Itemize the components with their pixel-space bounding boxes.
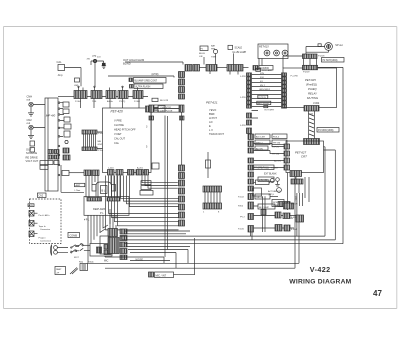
label boxes A14/N20/GN3 [140,181,153,195]
wire elbows mid [121,176,179,207]
jack symbol 1 [29,211,38,217]
label box LM9 [75,78,80,82]
svg-text:MIC / INT: MIC / INT [156,274,167,277]
connector stubs into PET-420 [81,99,140,109]
svg-text:VOLT OUT: VOLT OUT [26,159,39,163]
svg-text:MV 2: MV 2 [260,85,266,87]
svg-text:GB/LIN: GB/LIN [256,197,264,199]
svg-text:MPX 2: MPX 2 [256,143,263,145]
connector strip tail [120,255,127,260]
lower ladder blocks [248,194,254,233]
parts column right of MP-410 [63,102,71,160]
transformer KEP-620 enclosure [84,197,129,216]
svg-text:V-422: V-422 [310,265,331,274]
sub-circuit row B [254,202,291,210]
svg-text:BLI/AMP GRID CONT: BLI/AMP GRID CONT [135,80,158,83]
transistor Q1 [91,59,104,86]
cable to CRT [309,111,315,139]
svg-text:AUX: AUX [29,204,34,207]
svg-text:# P L: # P L [84,220,90,222]
svg-text:(Pre/EQ): (Pre/EQ) [306,83,317,87]
cable GN [300,193,303,206]
trimmer RT1 [206,152,211,178]
connector SUZ [261,210,266,216]
svg-text:A F: A F [209,120,213,124]
switch S1 [71,245,78,249]
svg-text:P1218: P1218 [318,56,325,58]
svg-text:L Noir: L Noir [75,189,81,192]
svg-text:FD/L4: FD/L4 [273,137,280,139]
label box SPKR MUT [272,200,284,207]
pin strip left [87,198,102,202]
label box GB/LIN upper [256,180,270,185]
svg-text:LIR: LIR [199,56,203,58]
connector blocks on PET-627 left edge [284,144,290,170]
pin strip right [107,198,120,202]
svg-text:BWF: BWF [209,112,215,116]
comb connector P14 [82,130,97,151]
connector A20 [106,91,116,99]
svg-text:GND/GND2: GND/GND2 [259,89,271,91]
jack CN2 [29,125,45,129]
svg-text:CN2: CN2 [39,196,44,198]
svg-text:PV 2: PV 2 [240,217,246,219]
PCB PET-420 outline [103,108,152,173]
wires from transformer pins down [88,215,116,246]
svg-text:BF COMP: BF COMP [259,207,270,209]
svg-text:SOURCE: SOURCE [26,151,37,155]
connector P206 [133,91,143,99]
connector on PET-625 top [303,65,318,70]
AC plug P1 [51,245,69,256]
svg-text:Pin & JACs: Pin & JACs [39,214,51,217]
label box P8 BL [152,98,158,101]
svg-text:MP 4/0: MP 4/0 [46,113,56,117]
svg-text:7/16: 7/16 [92,101,97,103]
ground [102,66,107,69]
svg-text:A-201: A-201 [137,167,144,170]
svg-text:V PRE: V PRE [114,119,122,123]
svg-text:1: 1 [203,212,205,214]
svg-text:MIC: MIC [104,260,109,263]
svg-text:P202: P202 [238,206,244,208]
wires down from PET-627 [288,173,310,211]
pins of MP-410 [58,102,60,176]
svg-text:P15a: P15a [98,150,104,152]
label box P7 DPB [253,165,274,170]
svg-text:P-304: P-304 [134,101,141,103]
stubs below P1204 [210,71,252,240]
lamp BAT [213,49,217,64]
svg-text:SOL LAMP: SOL LAMP [262,69,273,72]
wire links between connectors [87,95,148,97]
label box COMB [68,233,80,238]
label box AMT TRIG [257,101,271,104]
connector P1204a [206,65,217,72]
ladder left strip [247,73,252,134]
wire comb to PET-420 [97,132,103,149]
speaker SP [306,43,332,54]
label box B1 [264,106,268,108]
svg-text:OUT CHR STBY: OUT CHR STBY [155,107,172,109]
connector MOD4 on PET-627 bottom [290,171,302,177]
svg-text:Jmp: Jmp [58,73,63,77]
svg-text:5: 5 [146,146,148,149]
fuse F1 [80,264,88,271]
svg-text:KEP-620: KEP-620 [93,207,105,211]
svg-text:YEVO: YEVO [209,108,216,112]
svg-text:MESH: MESH [291,204,298,206]
svg-text:PET-615: PET-615 [259,46,269,49]
wires ladder to PET-627 [254,144,285,168]
svg-text:PET-621: PET-621 [206,101,218,105]
connector grid block [108,229,127,254]
pin stubs MP-410 [60,103,64,137]
svg-text:V DET: V DET [114,132,122,136]
label boxes row y134 [255,134,287,139]
IC MP-410 [45,98,58,191]
svg-text:Connector: Connector [40,228,50,231]
capacitor C1 [102,63,105,65]
label box L/R(A/B) [258,177,274,182]
PCB PET-627 [286,141,324,173]
svg-text:P-304: P-304 [75,101,82,103]
svg-text:J-P20: J-P20 [240,97,246,99]
wire fan upper [124,231,190,234]
svg-text:OUT DEF PULSE: OUT DEF PULSE [155,111,173,113]
label box P4 MOD(1399) [317,128,339,133]
svg-text:out: out [27,98,31,102]
svg-text:ULTRA FLASH: ULTRA FLASH [135,86,151,89]
svg-text:P-DIST: P-DIST [271,168,279,170]
svg-text:P2(4): P2(4) [88,262,94,264]
top-centre bus wires [108,62,183,78]
lamp box PET-615 [258,44,288,66]
svg-text:Project: Project [39,237,46,240]
svg-text:AMP: AMP [76,184,81,187]
svg-text:P-105: P-105 [238,229,245,231]
svg-text:CAL OUT: CAL OUT [114,137,126,141]
label boxes row y140 [255,140,287,145]
svg-text:P4 MOD(1399): P4 MOD(1399) [318,130,334,132]
svg-text:3: 3 [146,126,148,129]
svg-text:2x3: 2x3 [97,57,101,59]
label box P6 [62,171,69,176]
svg-text:BULB: BULB [199,53,205,55]
svg-text:CRT: CRT [301,155,307,159]
diode/part [70,268,78,275]
svg-text:SPKR: SPKR [273,202,279,204]
svg-text:P-102: P-102 [238,197,245,199]
svg-text:EXT BLANK: EXT BLANK [264,173,277,176]
label box FLTR N [258,95,268,98]
wire GN riser [296,193,298,236]
svg-text:NOISE: NOISE [136,259,144,262]
svg-text:47: 47 [373,289,382,298]
connector P1399 [304,139,320,145]
connector G6 [296,215,304,222]
svg-text:P2 SCH(1394): P2 SCH(1394) [323,60,338,62]
jack symbol 3 [29,231,38,237]
jack CN1 [29,102,45,106]
small parts grid [48,150,59,165]
component CAL [58,65,81,71]
wires from PET-627 right [324,147,336,150]
label box CN2 [38,193,47,198]
svg-text:PET-420: PET-420 [111,110,124,114]
connector row P-204 [84,170,99,176]
connector P240 on PET-625 bottom [304,106,319,112]
wire bundle mid ladder [263,196,266,232]
svg-text:V-002: V-002 [313,102,320,105]
connector block [284,203,294,209]
wire parts column to transformer [61,165,84,192]
mid ladder strip [248,134,254,191]
label box CA BLI/MOD [253,66,273,71]
svg-text:PH GM: PH GM [273,143,280,145]
svg-text:(GN): (GN) [294,196,296,201]
wire to P1 connector [200,67,207,69]
svg-text:HEAD PITCH OFF: HEAD PITCH OFF [114,128,136,132]
label box P30 [40,161,48,170]
svg-text:ALIGN: ALIGN [256,147,263,150]
connector grid P142 [203,186,222,209]
svg-text:Ch ON: Ch ON [70,251,77,253]
ladder rung wires [252,75,282,119]
PCB PET-625 [283,68,337,108]
svg-text:BLIND: BLIND [123,62,131,66]
connector P204 [118,91,128,99]
ground [28,107,34,116]
parts below PET-627 [275,178,281,193]
resistor R1 [30,141,35,146]
label box AMP [75,183,85,186]
svg-text:SP out: SP out [335,44,343,47]
label box ULTRA FLASH [130,84,164,89]
long routing wires bottom [88,236,344,268]
wire [80,68,82,87]
svg-text:MB: MB [98,141,102,143]
svg-text:ILLUM LAMP: ILLUM LAMP [233,51,247,54]
label box BLI/AMP GRID CONT [129,78,166,84]
connector pair cluster [185,65,200,72]
svg-text:RE DRIVE: RE DRIVE [26,156,39,160]
svg-text:F2N: F2N [260,73,264,75]
svg-text:AMT TRIGR: AMT TRIGR [258,102,270,105]
wire drops into transformer [86,176,120,198]
svg-text:ALIGN: ALIGN [274,160,281,163]
svg-text:H POT: H POT [209,116,217,120]
svg-text:F3O: F3O [260,77,264,79]
label box OUT CHR STBY [149,105,184,112]
connector P1204 [227,65,243,72]
connector A-DN on PET-420 right edge [146,106,166,113]
jack symbol 2 [29,221,38,227]
svg-text:2W: 2W [87,59,91,61]
wire vertical left drop [150,112,152,169]
svg-text:J-P20: J-P20 [240,76,246,78]
label box OUT DEF PULSE [149,109,184,120]
svg-text:J-P20: J-P20 [240,125,246,127]
routing risers right [295,67,343,268]
pot circle [270,179,274,183]
label box P1 BULB [200,46,208,65]
svg-text:F(4): F(4) [79,262,83,264]
svg-text:RELAY: RELAY [308,92,318,96]
svg-text:P1219: P1219 [303,72,310,74]
wire from MP box to connector row [58,95,74,97]
svg-text:8: 8 [218,212,220,214]
svg-text:MUTING: MUTING [307,96,319,100]
svg-text:E: E [209,124,211,128]
svg-text:TIME: TIME [211,57,217,59]
svg-text:CAL: CAL [57,60,63,64]
connector P1214 [303,54,318,59]
svg-text:PET-625: PET-625 [305,78,316,82]
svg-text:BLI/L/29: BLI/L/29 [160,100,169,102]
svg-text:CAL: CAL [114,141,120,145]
centre connector column lower [179,165,185,226]
svg-text:P L: P L [100,212,104,215]
svg-text:(LP30): (LP30) [152,74,159,76]
switch S2 [71,248,90,253]
svg-text:ILS34: ILS34 [291,229,297,231]
centre connector column upper [179,72,185,100]
wire elbows low [106,176,179,230]
label box PART 2P [55,267,66,275]
svg-text:WIRING DIAGRAM: WIRING DIAGRAM [289,278,351,285]
svg-text:out: out [27,121,31,125]
box MIC sub [100,236,109,254]
wire [254,177,300,194]
svg-text:COMB: COMB [70,235,78,238]
svg-text:A3 4a: A3 4a [107,100,113,103]
svg-text:P7 DPB(7011): P7 DPB(7011) [254,168,269,170]
svg-text:MOT: MOT [74,257,80,259]
filter box [90,244,112,257]
svg-text:MUT: MUT [273,205,278,207]
wire P6 to transformer [69,172,84,174]
connector under PET-627 [291,179,303,184]
sub-circuit row A [255,194,278,199]
svg-text:A/D 1497: A/D 1497 [256,136,266,139]
svg-text:GN2: GN2 [98,144,103,146]
wire long drops centre [165,116,168,258]
svg-text:L/R(A/B): L/R(A/B) [259,179,268,182]
svg-text:Bat: Bat [80,243,84,246]
svg-text:P-POS: P-POS [272,147,279,149]
transformer core [92,182,116,197]
svg-text:J-204: J-204 [108,168,114,170]
label box CN SOL [256,68,261,71]
svg-text:ACTIVATION: ACTIVATION [268,190,281,193]
svg-text:OUT HIGH FLHIM: OUT HIGH FLHIM [123,58,144,62]
svg-text:L V: L V [209,128,213,132]
ladder right strip [282,73,287,108]
svg-text:P3 7Q: P3 7Q [119,101,125,103]
connector row J-204 [108,170,124,176]
wires from J-204 row down to grid [110,209,116,237]
connector P2004 [74,91,87,99]
svg-text:FLTR N: FLTR N [259,97,267,99]
label box 2P MIC/INT [149,272,174,278]
svg-text:(2N): (2N) [92,55,97,57]
sub-circuit row C [254,212,297,219]
svg-text:SCALE: SCALE [235,47,243,50]
sub-circuit row D [254,225,295,232]
svg-text:PART: PART [56,268,62,271]
svg-text:BAT: BAT [211,45,216,48]
label box AUX [28,204,34,207]
svg-text:ROT WHT: ROT WHT [265,110,275,112]
box ACTIVATION [253,188,262,196]
wire vertical right drop [181,112,183,165]
svg-text:P240: P240 [308,114,314,116]
connector row P-201 [128,170,149,176]
connector T06 [91,91,102,99]
resistor R2 [30,148,35,153]
svg-text:Tape In: Tape In [39,226,47,228]
wire from switch down [87,246,89,263]
svg-text:CH PRE: CH PRE [114,123,124,127]
svg-text:B L: B L [102,189,106,193]
svg-text:TRACK ROT: TRACK ROT [209,132,224,136]
ground [28,130,34,139]
label box LNB [152,163,159,169]
dashed enclosure AUX jacks [30,199,62,244]
label box row y146 [255,146,268,150]
svg-text:PH GM: PH GM [272,154,279,156]
svg-text:PU/EQ: PU/EQ [308,87,318,91]
wire [217,67,227,69]
svg-text:P-LOW: P-LOW [291,76,299,78]
svg-text:P14x: P14x [98,133,104,135]
label box P2 SCH(1394) [322,58,345,63]
L-wires from P-201 row to centre column [142,176,178,189]
svg-text:(T/P)L: (T/P)L [268,194,275,196]
wires P1214 to PET-625 [283,56,317,68]
switch S1b [77,243,90,246]
wire to ladder [243,67,249,69]
svg-text:Connection: Connection [40,240,52,243]
svg-text:PHIL: PHIL [211,49,217,51]
wire corner [174,238,195,275]
label box P8 SCALE ILLUM LAMP [228,45,234,64]
